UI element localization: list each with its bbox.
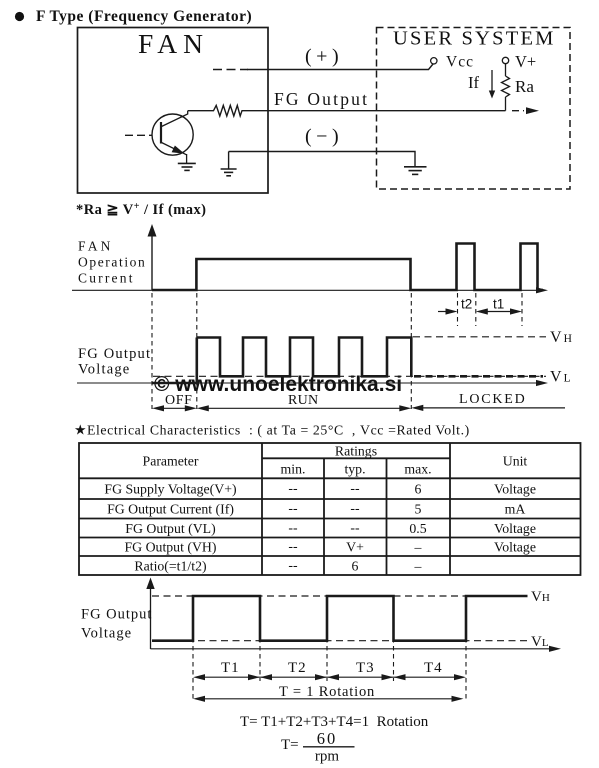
svg-text:Unit: Unit bbox=[503, 454, 528, 469]
ground (FAN side) bbox=[228, 152, 230, 170]
OFF span arrows bbox=[161, 407, 188, 409]
svg-text:FG Output: FG Output bbox=[78, 346, 151, 362]
svg-text:FG Output (VH): FG Output (VH) bbox=[125, 540, 217, 556]
VL dashed level bbox=[152, 640, 528, 642]
wire V+ to Ra bbox=[505, 64, 507, 76]
terminal Vcc bbox=[431, 58, 437, 64]
VH dashed level (locked region) bbox=[413, 336, 546, 338]
USER SYSTEM box (dashed) bbox=[377, 28, 571, 190]
svg-text:OFF: OFF bbox=[165, 393, 192, 408]
svg-text:Voltage: Voltage bbox=[494, 481, 536, 496]
t1 arrow bbox=[484, 311, 514, 313]
table row 1 bbox=[104, 480, 536, 497]
axis vertical chart1 bbox=[151, 236, 153, 291]
svg-text:VH: VH bbox=[531, 589, 550, 605]
boundary OFF/RUN dashed bbox=[196, 293, 198, 409]
svg-text:--: -- bbox=[288, 520, 298, 535]
svg-text:0.5: 0.5 bbox=[409, 521, 426, 536]
table row 3 bbox=[125, 520, 536, 537]
svg-text:--: -- bbox=[350, 480, 360, 495]
svg-text:60: 60 bbox=[317, 729, 338, 748]
wire FG output bbox=[247, 110, 506, 112]
svg-text:Voltage: Voltage bbox=[81, 626, 132, 642]
svg-text:Parameter: Parameter bbox=[143, 454, 199, 469]
table grid bbox=[79, 443, 581, 575]
svg-text:If: If bbox=[468, 73, 479, 92]
resistor Ra bbox=[502, 76, 510, 97]
boundary RUN/LOCKED dashed bbox=[410, 293, 412, 409]
svg-text:T2: T2 bbox=[288, 660, 307, 676]
svg-text:5: 5 bbox=[415, 502, 422, 517]
resistor R1 (FG series) bbox=[188, 105, 247, 116]
VL dashed level bbox=[153, 375, 546, 377]
LOCKED span arrow bbox=[419, 407, 565, 409]
svg-text:6: 6 bbox=[415, 481, 422, 496]
svg-text:Operation: Operation bbox=[78, 255, 146, 270]
svg-text:V+: V+ bbox=[346, 540, 364, 555]
svg-text:F Type (Frequency Generator): F Type (Frequency Generator) bbox=[36, 8, 252, 25]
svg-text:VL: VL bbox=[531, 634, 549, 650]
svg-text:★Electrical Characteristics :: ★Electrical Characteristics : ( at Ta = … bbox=[74, 423, 470, 439]
t2 arrow bbox=[438, 311, 448, 313]
svg-text:VL: VL bbox=[550, 369, 571, 386]
svg-text:FG Supply Voltage(V+): FG Supply Voltage(V+) bbox=[104, 481, 236, 497]
svg-text:FAN: FAN bbox=[78, 239, 114, 254]
SECTION-HEADER bbox=[15, 8, 252, 25]
ground (USER side) bbox=[404, 167, 427, 175]
T dashed verticals bbox=[192, 598, 194, 701]
svg-text:t1: t1 bbox=[493, 297, 504, 312]
axis vertical continuation (dashed) bbox=[151, 293, 153, 409]
svg-text:–: – bbox=[414, 540, 422, 555]
SECTION-CHART1 bbox=[72, 201, 548, 326]
svg-text:Ra: Ra bbox=[515, 77, 534, 96]
wire collector bbox=[162, 111, 188, 127]
svg-text:Ratio(=t1/t2): Ratio(=t1/t2) bbox=[134, 558, 206, 574]
FAN box bbox=[78, 28, 269, 194]
waveform locked level (thick dashed) bbox=[414, 375, 543, 378]
wire base dashed lead bbox=[125, 134, 153, 136]
svg-text:Vcc: Vcc bbox=[446, 54, 474, 71]
svg-text:FG Output Current (If): FG Output Current (If) bbox=[107, 502, 234, 518]
svg-text:Current: Current bbox=[78, 271, 135, 286]
svg-text:FG Output (VL): FG Output (VL) bbox=[125, 521, 215, 537]
SECTION-CHART2 bbox=[77, 293, 572, 411]
svg-text:T4: T4 bbox=[424, 660, 443, 676]
terminal V+ bbox=[502, 57, 508, 63]
table row 5 bbox=[134, 557, 421, 574]
svg-text:--: -- bbox=[350, 501, 360, 516]
waveform FG rotation bbox=[152, 596, 528, 641]
T span arrow line bbox=[202, 676, 457, 678]
svg-text:T1: T1 bbox=[221, 660, 240, 676]
svg-text:RUN: RUN bbox=[288, 393, 318, 408]
svg-text:--: -- bbox=[288, 539, 298, 554]
svg-text:Voltage: Voltage bbox=[78, 362, 130, 378]
svg-text:(+): (+) bbox=[305, 46, 343, 68]
wire emitter with arrow bbox=[162, 143, 187, 155]
svg-text:max.: max. bbox=[404, 462, 431, 477]
axis vertical chart3 bbox=[150, 588, 152, 649]
VH dashed level bbox=[152, 595, 528, 597]
waveform FG output bbox=[152, 338, 411, 384]
svg-text:--: -- bbox=[288, 557, 298, 572]
axis x chart2 bbox=[77, 382, 538, 384]
table row 2 bbox=[107, 501, 525, 518]
svg-text:FG Output: FG Output bbox=[274, 89, 369, 109]
svg-text:(−): (−) bbox=[305, 126, 343, 148]
table row 4 bbox=[125, 539, 536, 556]
svg-text:FAN: FAN bbox=[138, 28, 209, 59]
svg-text:min.: min. bbox=[281, 462, 306, 477]
wire (-) bbox=[229, 152, 415, 167]
svg-text:--: -- bbox=[288, 501, 298, 516]
t markers dashed verticals bbox=[457, 293, 459, 326]
table header texts bbox=[143, 443, 528, 476]
svg-text:–: – bbox=[414, 558, 422, 573]
svg-text:mA: mA bbox=[505, 502, 526, 517]
waveform FAN current bbox=[152, 244, 543, 291]
svg-text:T = 1 Rotation: T = 1 Rotation bbox=[279, 684, 375, 700]
svg-text:--: -- bbox=[350, 520, 360, 535]
svg-text:VH: VH bbox=[550, 329, 572, 346]
svg-text:t2: t2 bbox=[461, 297, 472, 312]
svg-text:Voltage: Voltage bbox=[494, 521, 536, 536]
wire Ra to FG line bbox=[505, 97, 507, 111]
svg-text:Voltage: Voltage bbox=[494, 540, 536, 555]
svg-text:LOCKED: LOCKED bbox=[459, 392, 527, 407]
wire FG output arrow end bbox=[512, 110, 524, 112]
wire (+) to Vcc bbox=[247, 64, 433, 70]
ground (emitter) bbox=[178, 163, 196, 170]
svg-text:Ratings: Ratings bbox=[335, 443, 377, 458]
transistor Q1 (NPN) bbox=[152, 114, 193, 155]
svg-text:FG Output: FG Output bbox=[81, 607, 152, 623]
svg-text:T=: T= bbox=[281, 737, 299, 753]
svg-text:USER SYSTEM: USER SYSTEM bbox=[393, 28, 556, 50]
svg-text:T3: T3 bbox=[356, 660, 375, 676]
axis x chart1 bbox=[72, 289, 538, 291]
bullet bbox=[15, 12, 24, 21]
wire (+) dashed lead inside FAN bbox=[213, 69, 248, 71]
SECTION-CIRCUIT bbox=[78, 28, 571, 194]
svg-text:6: 6 bbox=[352, 558, 359, 573]
svg-text:rpm: rpm bbox=[315, 749, 339, 765]
svg-text:V+: V+ bbox=[515, 52, 536, 71]
SECTION-CHART3 bbox=[81, 578, 561, 765]
svg-text:--: -- bbox=[288, 480, 298, 495]
RUN span arrows bbox=[205, 407, 403, 409]
T rotation span arrow bbox=[202, 698, 455, 700]
svg-text:*Ra ≧ V+ / If (max): *Ra ≧ V+ / If (max) bbox=[76, 201, 206, 218]
SECTION-TABLE bbox=[74, 423, 581, 576]
svg-text:typ.: typ. bbox=[344, 462, 365, 477]
svg-text:T= T1+T2+T3+T4=1 Rotation: T= T1+T2+T3+T4=1 Rotation bbox=[240, 714, 429, 730]
axis x chart3 bbox=[151, 648, 552, 650]
current If arrow bbox=[491, 70, 493, 91]
